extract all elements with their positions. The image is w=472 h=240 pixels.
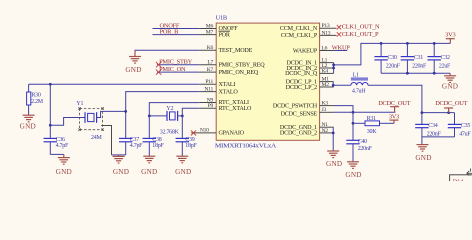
svg-text:MIMXRT1064xVLxA: MIMXRT1064xVLxA — [215, 143, 277, 149]
inductor L1 4.7uH — [351, 73, 368, 95]
svg-text:CCM_CLK1_N: CCM_CLK1_N — [280, 26, 318, 32]
power port 3V3 at R31 — [389, 114, 399, 124]
pin DCDC_PSWITCH K3 — [273, 101, 334, 110]
net CLK1_OUT_N with no-ERC cross — [337, 24, 380, 31]
pin DCDC_LP_1 M1 — [286, 77, 334, 86]
svg-text:P11: P11 — [205, 79, 213, 85]
capacitor C38 — [143, 137, 165, 156]
svg-text:POR_B: POR_B — [160, 29, 179, 36]
svg-text:C40: C40 — [358, 139, 367, 145]
node junction DCDC_IN — [332, 64, 335, 67]
pin DCDC_LP_2 M2 — [286, 82, 334, 91]
pin CCM_CLK1_P N13 — [281, 30, 337, 39]
capacitor C34 — [415, 113, 441, 138]
svg-text:30K: 30K — [367, 129, 377, 135]
node junction C32 top rail — [433, 42, 436, 45]
node junction XTALI/R30 branch — [49, 83, 52, 86]
wire Y1 right pin to XTALO — [97, 111, 126, 117]
node junction DCDC_OUT port stem — [447, 111, 450, 114]
svg-text:C32: C32 — [441, 55, 450, 61]
wire DCDC_OUT rail right — [422, 112, 455, 114]
svg-text:K4: K4 — [322, 68, 329, 74]
ground C34 C35 — [415, 137, 431, 162]
node junction bottom rail C31 — [406, 72, 409, 75]
node junction RTC_XTALI/Y2 — [148, 115, 151, 118]
capacitor C39 — [176, 137, 198, 156]
svg-text:4.7pF: 4.7pF — [56, 143, 69, 149]
svg-text:WKUP: WKUP — [332, 44, 351, 51]
node junction C36 top — [49, 124, 52, 127]
pin POR M7 — [199, 29, 231, 38]
pin DCDC_IN_Q K4 — [285, 68, 333, 77]
IC U1B MIMXRT1064 MCU symbol body — [216, 23, 319, 140]
power port 3V3 top right — [445, 32, 455, 44]
node junction PSWITCH-SENSE — [352, 111, 355, 114]
ground TEST_MODE — [125, 50, 141, 74]
pin PMIC_ON_REQ K7 — [199, 67, 259, 76]
svg-text:DCDC_LP_2: DCDC_LP_2 — [286, 85, 317, 91]
wire DCDC_SENSE to DCDC_OUT port — [334, 111, 396, 113]
pin RTC_XTALI N9 — [199, 97, 249, 106]
svg-text:32.768K: 32.768K — [160, 130, 180, 136]
wire Y1 case ground — [101, 126, 111, 155]
wire Y2 left lead — [149, 115, 167, 117]
svg-text:3V3: 3V3 — [389, 114, 399, 121]
svg-text:DCDC_OUT: DCDC_OUT — [435, 100, 467, 107]
pin RTC_XTALO P9 — [199, 103, 252, 112]
svg-text:N2: N2 — [322, 128, 329, 134]
pin WAKEUP L6 — [293, 45, 334, 54]
wire DCDC_LP pins joined — [332, 82, 334, 87]
node junction C30 top rail — [380, 42, 383, 45]
svg-text:POR: POR — [219, 32, 231, 38]
net label POR_B wire — [153, 29, 200, 36]
svg-text:GND: GND — [415, 154, 431, 162]
wire RTC_XTALO from chip down to C39 — [182, 108, 199, 138]
svg-text:DCDC_OUT: DCDC_OUT — [378, 100, 410, 107]
pin PMIC_STBY_REQ L7 — [199, 60, 265, 69]
svg-text:M2: M2 — [322, 82, 330, 88]
svg-text:N13: N13 — [322, 30, 331, 36]
svg-text:DCDC_PSWITCH: DCDC_PSWITCH — [273, 103, 318, 109]
svg-text:GND: GND — [141, 168, 157, 176]
pin DCDC_SENSE J3 — [281, 107, 334, 118]
ground R30 — [20, 115, 36, 130]
pin ONOFF M6 — [199, 23, 238, 32]
svg-text:P9: P9 — [208, 103, 214, 109]
net WKUP wire — [332, 44, 351, 51]
svg-text:C37: C37 — [130, 137, 139, 143]
svg-text:GND: GND — [345, 171, 361, 179]
wire DCDC_PSWITCH down — [334, 106, 353, 141]
svg-text:CLK1_OUT_P: CLK1_OUT_P — [342, 31, 379, 38]
node junction XTALO/Y1 — [124, 110, 127, 113]
wire DCDC_GND pins joined to ground — [332, 127, 334, 151]
svg-text:GND: GND — [125, 66, 141, 74]
svg-text:XTALO: XTALO — [219, 89, 239, 95]
svg-text:C31: C31 — [414, 55, 423, 61]
pin DCDC_IN_2 L2 — [286, 63, 333, 72]
svg-text:DCDC_IN_Q: DCDC_IN_Q — [285, 71, 318, 77]
svg-text:WAKEUP: WAKEUP — [293, 48, 318, 54]
svg-text:L7: L7 — [207, 60, 213, 66]
svg-text:GND: GND — [442, 83, 458, 91]
capacitor C36 — [44, 125, 69, 154]
svg-text:GND: GND — [56, 168, 72, 176]
svg-text:D14: D14 — [453, 178, 464, 181]
wire DCDC_IN pins joined to 3V3 rail — [333, 63, 335, 74]
crystal Y2 — [160, 106, 180, 136]
ground C36 — [56, 154, 72, 175]
pin DCDC_GND_1 N1 — [280, 122, 334, 131]
capacitor C30 — [374, 43, 400, 73]
svg-text:220nF: 220nF — [358, 146, 373, 152]
svg-text:18pF: 18pF — [152, 143, 164, 149]
svg-text:Y1: Y1 — [76, 101, 83, 107]
off-sheet arrow bottom-right edge — [467, 169, 472, 176]
svg-text:18pF: 18pF — [185, 143, 197, 149]
svg-text:N11: N11 — [204, 86, 213, 92]
svg-text:RTC_XTALO: RTC_XTALO — [219, 106, 253, 112]
node junction DCDC_LP — [332, 84, 335, 87]
svg-text:M6: M6 — [206, 23, 214, 29]
wire to inductor L1 — [333, 84, 351, 86]
svg-text:PMIC_ON_REQ: PMIC_ON_REQ — [219, 70, 259, 76]
svg-text:R30: R30 — [31, 92, 40, 98]
svg-text:TEST_MODE: TEST_MODE — [219, 48, 253, 54]
wire to crystal Y1 left pin — [50, 118, 85, 126]
wire bottom rail C30-C32 — [381, 72, 450, 74]
wire XTALI down to C36 — [49, 84, 51, 125]
svg-text:XTALI: XTALI — [219, 82, 236, 88]
svg-text:47uF: 47uF — [459, 132, 471, 138]
svg-text:M7: M7 — [206, 29, 214, 35]
svg-text:K7: K7 — [207, 67, 214, 73]
svg-text:U1B: U1B — [216, 14, 227, 21]
power port DCDC_OUT right — [435, 100, 467, 113]
pin DCDC_IN_1 L1 — [286, 58, 333, 67]
node junction RTC_XTALO/Y2 — [181, 115, 184, 118]
crystal Y1 — [76, 101, 103, 141]
ground C39 — [175, 156, 191, 176]
svg-text:K6: K6 — [207, 45, 214, 51]
wire RTC_XTALI from chip down to C38 — [149, 103, 199, 139]
pin XTALI P11 — [199, 79, 235, 88]
svg-text:24M: 24M — [91, 135, 102, 141]
svg-text:C39: C39 — [185, 137, 194, 143]
svg-text:GND: GND — [175, 168, 191, 176]
wire L1 output to DCDC_OUT rail — [368, 85, 422, 112]
svg-text:220nF: 220nF — [386, 64, 401, 70]
svg-text:GND: GND — [20, 122, 36, 130]
svg-text:P13: P13 — [322, 23, 330, 29]
svg-text:R31: R31 — [367, 116, 376, 122]
node junction PSWITCH-R31 — [352, 122, 355, 125]
capacitor C31 — [401, 43, 427, 73]
net PMIC_STBY wire with no-ERC cross — [156, 59, 199, 68]
svg-text:K3: K3 — [322, 101, 329, 107]
svg-text:C38: C38 — [152, 137, 161, 143]
wire XTALO from chip down to C37 — [126, 92, 200, 139]
wire bottom rail C34 C35 — [422, 136, 455, 138]
svg-text:220nF: 220nF — [412, 64, 427, 70]
wire XTALI horizontal — [29, 83, 200, 85]
svg-text:N10: N10 — [200, 128, 209, 134]
svg-text:PMIC_STBY_REQ: PMIC_STBY_REQ — [219, 62, 266, 68]
node junction L1/DCDC_OUT rail — [421, 111, 424, 114]
ground C30-C32 rail — [442, 73, 458, 90]
pin CCM_CLK1_N P13 — [280, 23, 337, 32]
svg-text:PMIC_STBY: PMIC_STBY — [159, 59, 193, 66]
svg-text:22uF: 22uF — [439, 64, 451, 70]
svg-text:DCDC_GND_2: DCDC_GND_2 — [280, 131, 317, 137]
svg-text:J3: J3 — [322, 107, 327, 113]
capacitor C37 — [112, 137, 144, 155]
net label ONOFF wire — [153, 22, 200, 29]
svg-text:3V3: 3V3 — [445, 32, 455, 39]
capacitor C35 — [448, 113, 472, 138]
pin DCDC_GND_2 N2 — [280, 128, 334, 137]
svg-text:CLK1_OUT_N: CLK1_OUT_N — [342, 24, 380, 31]
resistor R30 — [27, 84, 44, 115]
svg-text:C36: C36 — [56, 137, 65, 143]
pin XTALO N11 — [199, 86, 238, 95]
resistor R31 — [353, 116, 394, 135]
svg-text:CCM_CLK1_P: CCM_CLK1_P — [281, 33, 318, 39]
net CLK1_OUT_P with no-ERC cross — [337, 31, 379, 38]
capacitor C32 — [428, 43, 452, 73]
svg-text:GND: GND — [113, 168, 129, 176]
ground DCDC_GND — [326, 151, 342, 168]
node junction bottom rail C32 — [433, 72, 436, 75]
svg-text:4.7uH: 4.7uH — [352, 89, 366, 95]
pin TEST_MODE K6 — [199, 45, 252, 54]
node junction C31 top rail — [406, 42, 409, 45]
node junction DCDC_IN_2 — [332, 67, 335, 70]
svg-text:C30: C30 — [388, 55, 397, 61]
svg-text:DCDC_SENSE: DCDC_SENSE — [281, 112, 318, 118]
svg-text:GND: GND — [326, 160, 342, 168]
node junction DCDC_GND — [332, 132, 335, 135]
svg-text:L6: L6 — [322, 45, 328, 51]
svg-text:2.2M: 2.2M — [31, 99, 44, 105]
power port DCDC_OUT middle — [378, 100, 410, 112]
ground C37 — [113, 155, 130, 176]
ground C38 — [141, 156, 157, 176]
pin GPANAIO N10 — [191, 128, 245, 137]
ground C40 — [345, 162, 361, 179]
svg-text:GPANAIO: GPANAIO — [219, 131, 245, 137]
wire TEST_MODE to ground — [135, 50, 199, 56]
sheet symbol box cut at bottom-right corner — [450, 175, 472, 187]
wire Y2 right lead — [178, 115, 183, 117]
svg-text:4.7pF: 4.7pF — [130, 143, 143, 149]
svg-text:PMIC_ON: PMIC_ON — [159, 66, 186, 73]
net PMIC_ON wire with no-ERC cross — [156, 66, 199, 75]
capacitor C40 — [346, 139, 372, 162]
svg-text:C34: C34 — [428, 123, 437, 129]
svg-text:C35: C35 — [461, 123, 470, 129]
